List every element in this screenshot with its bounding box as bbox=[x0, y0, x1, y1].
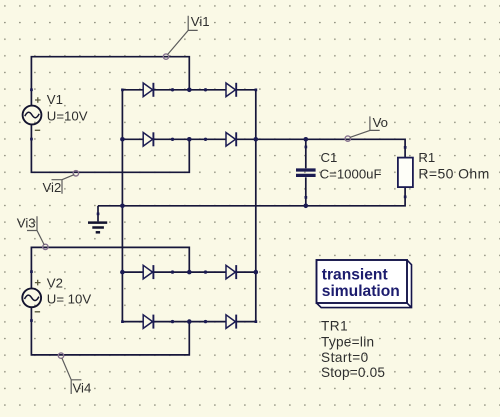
junction bridge1 rowA mid bbox=[187, 88, 192, 93]
pin dot bridge bottom-left corner bbox=[121, 320, 124, 323]
source V2 bbox=[22, 280, 41, 312]
pin dot R1 bottom bbox=[404, 196, 407, 199]
pin dot C1 top bbox=[305, 146, 308, 149]
diode D5 bridge2 row A left bbox=[143, 265, 153, 279]
pin dot bridge top-left corner bbox=[121, 89, 124, 92]
wire V2 minus to bridge2 row B bbox=[31, 307, 189, 355]
ground bbox=[88, 206, 107, 233]
wire bridge1 row A bbox=[122, 89, 255, 91]
wire bridge2 row B bbox=[122, 321, 255, 323]
simulation box transient bbox=[317, 260, 412, 308]
diode D6 bridge2 row A right bbox=[226, 265, 236, 279]
pin dot V2 bottom bbox=[30, 319, 33, 322]
node Vi2 bbox=[42, 171, 78, 195]
wire V2 plus to bridge2 row A bbox=[31, 247, 189, 288]
junction bridge1 rowB mid bbox=[187, 137, 192, 142]
wire bridge left vertical bbox=[121, 90, 123, 322]
svg-text:C=1000uF: C=1000uF bbox=[320, 167, 382, 182]
wire C1 top leg bbox=[305, 139, 307, 168]
diode D2 bridge1 row A right bbox=[226, 83, 236, 97]
svg-text:R1: R1 bbox=[418, 150, 435, 165]
pin dot V1 top bbox=[30, 88, 33, 91]
diode D3 bridge1 row B left bbox=[143, 132, 153, 146]
junction bridge2 rowA mid bbox=[187, 270, 192, 275]
wire bridge right vertical bbox=[255, 90, 257, 322]
node dot rowA1 left bbox=[171, 88, 174, 91]
node dot rowA2 left bbox=[171, 270, 174, 273]
junction bridge1 rowB right Vo bbox=[254, 137, 259, 142]
junction C1 bottom bbox=[304, 204, 309, 209]
svg-text:R=50 Ohm: R=50 Ohm bbox=[418, 166, 489, 182]
pin dot V2 top bbox=[30, 270, 33, 273]
junction bridge2 rowA right bbox=[254, 270, 259, 275]
junction bridge2 rowB mid bbox=[187, 319, 192, 324]
svg-text:U= 10V: U= 10V bbox=[47, 291, 92, 306]
diode D8 bridge2 row B right bbox=[226, 315, 236, 329]
wire V1 plus to bridge1 row A bbox=[31, 57, 189, 106]
capacitor C1 bbox=[296, 170, 316, 175]
wire C1 bottom leg bbox=[305, 177, 307, 206]
node dot rowA2 right bbox=[204, 270, 207, 273]
wire V1 minus to bridge1 row B bbox=[31, 124, 189, 172]
svg-text:U=10V: U=10V bbox=[47, 109, 88, 124]
wire Vo output to R1 bbox=[256, 139, 405, 157]
svg-text:V2: V2 bbox=[47, 275, 63, 290]
pin dot bridge top-right corner bbox=[255, 89, 258, 92]
diode D1 bridge1 row A left bbox=[143, 83, 153, 97]
svg-text:C1: C1 bbox=[321, 150, 338, 165]
pin dot V1 bottom bbox=[30, 138, 33, 141]
pin dot R1 top bbox=[404, 146, 407, 149]
node Vi4 bbox=[58, 353, 91, 396]
svg-text:Vi1: Vi1 bbox=[191, 14, 210, 29]
node Vi1 bbox=[163, 14, 209, 60]
junction bridge2 rowA left bbox=[120, 270, 125, 275]
diode D7 bridge2 row B left bbox=[143, 315, 153, 329]
diode D4 bridge1 row B right bbox=[226, 132, 236, 146]
node dot rowB1 right bbox=[204, 138, 207, 141]
svg-text:Vi3: Vi3 bbox=[17, 215, 36, 230]
svg-text:V1: V1 bbox=[47, 92, 63, 107]
junction C1 top bbox=[304, 137, 309, 142]
node dot rowB2 right bbox=[204, 320, 207, 323]
source V1 bbox=[23, 97, 42, 130]
svg-text:TR1: TR1 bbox=[321, 318, 348, 333]
wire bridge2 row A bbox=[122, 271, 255, 273]
junction bridge1 rowB left bbox=[120, 137, 125, 142]
svg-text:Type=lin: Type=lin bbox=[321, 334, 374, 349]
wire ground rail bbox=[98, 187, 405, 206]
svg-text:Vo: Vo bbox=[373, 115, 388, 130]
node dot rowB2 left bbox=[171, 320, 174, 323]
wire bridge1 row B bbox=[122, 138, 255, 140]
svg-text:Start=0: Start=0 bbox=[321, 350, 369, 365]
svg-text:Vi4: Vi4 bbox=[73, 381, 92, 396]
pin dot C1 bottom bbox=[305, 196, 308, 199]
svg-text:Stop=0.05: Stop=0.05 bbox=[321, 365, 385, 380]
svg-text:transient: transient bbox=[322, 266, 388, 283]
node dot rowB1 left bbox=[171, 138, 174, 141]
node Vi3 bbox=[17, 215, 48, 249]
svg-text:Vi2: Vi2 bbox=[42, 180, 61, 195]
node dot rowA1 right bbox=[204, 88, 207, 91]
resistor R1 bbox=[398, 158, 413, 188]
junction ground left vertical bbox=[120, 204, 125, 209]
pin dot bridge bottom-right corner bbox=[255, 320, 258, 323]
svg-text:simulation: simulation bbox=[322, 283, 400, 300]
node Vo bbox=[345, 115, 388, 141]
